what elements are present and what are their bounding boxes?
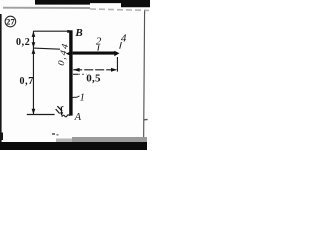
svg-text:1: 1 — [80, 92, 85, 103]
svg-text:0,5: 0,5 — [86, 72, 101, 84]
svg-text:0,7: 0,7 — [20, 76, 34, 87]
svg-text:4: 4 — [121, 32, 127, 44]
svg-text:A: A — [74, 112, 82, 123]
svg-text:0,2: 0,2 — [16, 37, 30, 48]
svg-text:27: 27 — [6, 16, 15, 26]
svg-text:2: 2 — [96, 35, 102, 47]
svg-text:B: B — [74, 27, 82, 39]
